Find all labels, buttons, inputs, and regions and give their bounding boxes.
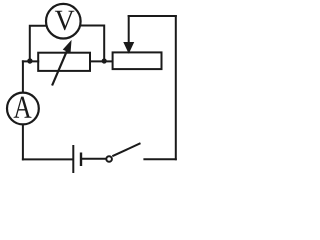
voltmeter V	[46, 4, 81, 39]
wire left vertical down to ammeter	[22, 61, 24, 92]
wire from voltmeter right to right node	[81, 26, 104, 60]
slide rheostat wiper arrowhead	[124, 42, 134, 52]
wire battery to switch pivot	[82, 158, 106, 160]
wire top right horizontal	[129, 15, 176, 17]
wire left node horizontal (node A to rheostat R1 left terminal)	[23, 60, 38, 62]
variable resistor R1 diagonal arrow	[52, 42, 71, 86]
wire slider lead down to arrowhead	[128, 16, 130, 44]
wire right vertical side	[175, 16, 177, 159]
wire from voltmeter left to top-left corner	[30, 26, 46, 59]
node junction dot left	[27, 58, 32, 63]
switch S pivot circle	[106, 156, 112, 162]
wire bottom left to battery	[23, 158, 73, 160]
wire right node to slide rheostat R2 left terminal	[90, 60, 113, 62]
ammeter A	[7, 93, 39, 125]
battery short plate (-)	[80, 153, 82, 167]
variable resistor R1 (box)	[38, 53, 90, 71]
node junction dot right	[102, 58, 107, 63]
switch S lever	[112, 143, 140, 156]
battery long plate (+)	[72, 145, 74, 173]
wire ammeter bottom down to battery row	[22, 125, 24, 159]
wire switch right contact to bottom-right corner	[144, 158, 175, 160]
slide rheostat R2 (box)	[113, 52, 162, 69]
